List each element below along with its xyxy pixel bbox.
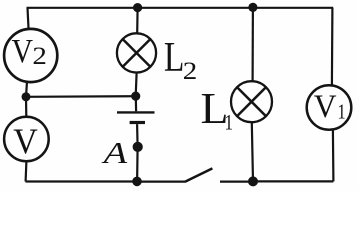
- junction dot bottom (L1 branch): [248, 176, 258, 186]
- wire top dot to lamp L1: [252, 7, 254, 81]
- node A dot: [133, 142, 143, 152]
- wire left-top vertical (top wire to V2): [28, 8, 29, 29]
- wire V1 top to top-right corner: [331, 8, 334, 85]
- junction dot left: [22, 92, 31, 101]
- switch S (open blade): [185, 168, 212, 181]
- wire junction to V: [25, 97, 27, 117]
- wire bottom-right corner up to V1: [332, 130, 335, 181]
- label L1: [201, 84, 234, 134]
- svg-text:1: 1: [338, 99, 346, 123]
- wire node A to bottom: [136, 147, 139, 181]
- svg-text:A: A: [101, 135, 128, 170]
- wire top dot to lamp L2: [136, 8, 139, 33]
- label A: [101, 135, 128, 170]
- junction dot top (L1 branch): [248, 3, 257, 12]
- wire bottom-left horizontal: [26, 180, 138, 182]
- junction dot bottom-left of switch: [132, 177, 142, 187]
- wire bottom-right horizontal: [253, 180, 333, 182]
- svg-text:1: 1: [225, 110, 234, 135]
- svg-text:L: L: [164, 35, 185, 81]
- svg-text:2: 2: [183, 58, 198, 85]
- voltmeter V2: [4, 29, 57, 82]
- wire switch contact to junction: [220, 181, 253, 183]
- wire middle horizontal (junction to battery branch): [26, 95, 136, 98]
- junction dot top (L2 branch): [133, 3, 142, 12]
- svg-text:V: V: [314, 89, 337, 125]
- label L2: [164, 35, 197, 85]
- wire lamp L1 to bottom junction: [252, 122, 253, 181]
- wire top horizontal: [27, 7, 334, 9]
- wire to switch pivot: [137, 181, 185, 183]
- battery B1: [117, 112, 155, 122]
- lamp L2: [117, 33, 156, 72]
- junction dot middle: [131, 92, 140, 101]
- svg-text:V: V: [13, 121, 38, 161]
- lamp L1: [231, 81, 272, 122]
- wire battery to node A: [136, 124, 139, 147]
- voltmeter V1: [307, 85, 352, 130]
- svg-text:2: 2: [32, 43, 47, 70]
- wire V2 bottom to junction: [26, 82, 27, 98]
- battery stub top: [135, 96, 138, 111]
- wire lamp L2 to middle junction: [135, 73, 138, 96]
- svg-text:V: V: [12, 33, 34, 70]
- voltmeter V: [4, 117, 49, 162]
- wire V bottom to bottom-left corner: [25, 161, 28, 181]
